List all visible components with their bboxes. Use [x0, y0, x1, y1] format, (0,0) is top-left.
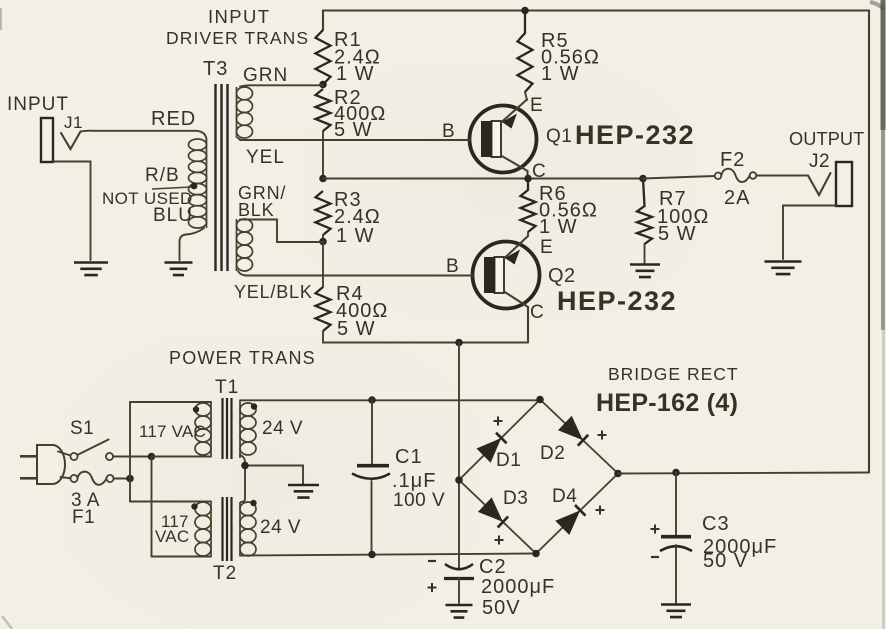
- transistor Q2 emitter lead: [504, 236, 528, 265]
- resistor R4: [316, 287, 331, 331]
- wire GRN/BLK to R3/R4 node: [240, 220, 323, 243]
- svg-text:DRIVER TRANS: DRIVER TRANS: [166, 28, 309, 48]
- node bias rail / bridge feed: [455, 339, 463, 347]
- wire collector rail: [323, 178, 643, 180]
- wire F1 to primary bus: [114, 478, 131, 480]
- wire GRN to R1/R2 node: [240, 85, 323, 86]
- label R6: [539, 183, 598, 238]
- fuse F1: [70, 472, 113, 485]
- wire fuse to J2: [756, 175, 807, 177]
- wire primary S1 bus: [151, 457, 153, 557]
- svg-text:YEL/BLK: YEL/BLK: [234, 282, 313, 302]
- label 24V T1: [262, 418, 303, 439]
- svg-text:YEL: YEL: [246, 147, 285, 168]
- label Q1: [546, 120, 695, 150]
- label 117VAC T1: [139, 422, 206, 441]
- polarity dot T1 primary: [193, 406, 199, 412]
- resistor R3: [316, 191, 331, 235]
- svg-text:24 V: 24 V: [262, 418, 303, 439]
- label 117VAC T2: [155, 512, 189, 546]
- node bridge left: [455, 476, 463, 484]
- wire primary F1 bus: [129, 402, 131, 502]
- svg-text:VAC: VAC: [155, 527, 189, 546]
- svg-text:F1: F1: [72, 507, 95, 528]
- wire T2 primary bottom: [152, 556, 212, 558]
- node center tap: [241, 462, 249, 470]
- label POWER TRANS: [169, 348, 316, 368]
- ground BLU: [165, 263, 193, 276]
- wire R3 bottom: [322, 235, 324, 242]
- resistor R1: [316, 30, 331, 85]
- label NOT USED: [102, 189, 193, 208]
- wire RED lead: [81, 131, 207, 140]
- capacitor C1: [352, 400, 390, 554]
- svg-text:GRN: GRN: [243, 65, 288, 86]
- label R/B: [145, 165, 180, 186]
- label GRN: [243, 65, 288, 86]
- resistor R6: [521, 179, 536, 233]
- label S1: [70, 418, 94, 439]
- svg-text:Q2: Q2: [548, 265, 576, 287]
- wire secondary center tap: [240, 455, 303, 502]
- label Q2 pins: [446, 237, 553, 323]
- transistor Q1 body: [470, 106, 537, 173]
- node R1/R2/GRN: [319, 81, 327, 89]
- transformer T3 secondary lower winding: [237, 219, 253, 271]
- svg-text:D3: D3: [503, 488, 528, 509]
- wire YEL/BLK to Q2 base: [238, 271, 246, 276]
- svg-text:C3: C3: [702, 513, 730, 535]
- label D3: [503, 488, 528, 509]
- label 24V T2: [260, 517, 301, 538]
- svg-text:.1μF: .1μF: [392, 470, 436, 492]
- transistor Q2 base bars: [484, 257, 504, 293]
- polarity dot T1 secondary: [251, 403, 257, 409]
- svg-text:RED: RED: [151, 108, 196, 130]
- svg-text:E: E: [530, 95, 543, 116]
- polarity + D2: [598, 431, 607, 440]
- wire R2 to collector rail: [322, 131, 324, 179]
- bridge diamond: [459, 400, 618, 554]
- node C3 top: [672, 469, 680, 477]
- jack J2 tip contact: [808, 173, 831, 195]
- label R3: [334, 189, 381, 247]
- node bridge right: [614, 470, 622, 478]
- label YEL/BLK: [234, 282, 313, 302]
- svg-text:T2: T2: [213, 563, 237, 584]
- label J2: [809, 151, 830, 172]
- resistor R5: [518, 11, 533, 93]
- transformer T3 primary winding: [189, 139, 207, 228]
- wire secondary bottom rail: [240, 554, 536, 556]
- svg-text:HEP-162 (4): HEP-162 (4): [596, 389, 738, 417]
- label R5: [541, 30, 600, 85]
- svg-text:HEP-232: HEP-232: [575, 120, 695, 150]
- transformer T2 secondary winding: [240, 502, 256, 556]
- svg-text:E: E: [540, 237, 553, 258]
- wire T2 primary top: [130, 501, 211, 503]
- ground C2: [446, 605, 473, 618]
- node bridge bottom: [532, 550, 540, 558]
- capacitor C3: [660, 473, 692, 604]
- label J1: [64, 113, 83, 132]
- node top rail / R5: [521, 7, 529, 15]
- label T1: [215, 377, 239, 398]
- label RED: [151, 108, 196, 130]
- resistor R7: [637, 179, 652, 245]
- label OUTPUT: [789, 129, 864, 149]
- label F1 3A: [71, 490, 100, 528]
- node Q1 collector: [524, 175, 532, 183]
- fuse F2: [715, 169, 757, 182]
- label R4: [336, 283, 388, 340]
- diode D2: [558, 416, 588, 446]
- transformer T3 secondary upper winding: [237, 87, 253, 138]
- jack J2 body: [836, 162, 852, 206]
- transformer T1 core: [223, 398, 232, 459]
- svg-text:1 W: 1 W: [539, 216, 578, 238]
- label F2: [720, 149, 750, 209]
- label BLU: [153, 205, 193, 226]
- label T3: [203, 58, 228, 80]
- label YEL: [246, 147, 285, 168]
- svg-text:2A: 2A: [724, 187, 750, 209]
- label C3: [702, 513, 777, 572]
- svg-text:B: B: [442, 121, 455, 142]
- svg-text:BLK: BLK: [238, 200, 274, 220]
- svg-text:C2: C2: [479, 556, 507, 578]
- label BRIDGE RECT: [596, 364, 739, 417]
- label D1: [496, 450, 521, 471]
- wire Q2 base lead: [245, 275, 473, 277]
- plug P1: [20, 445, 71, 484]
- svg-text:J1: J1: [64, 113, 83, 132]
- svg-text:1 W: 1 W: [336, 63, 375, 85]
- label R2: [334, 87, 386, 141]
- node bridge top: [536, 396, 544, 404]
- label T2: [213, 563, 237, 584]
- label C2: [479, 556, 555, 619]
- node F1 primary junction: [126, 475, 134, 483]
- svg-text:D4: D4: [552, 486, 577, 507]
- jack J1 tip contact: [61, 132, 81, 150]
- node output junction: [639, 175, 647, 183]
- transistor Q1 emitter lead: [501, 100, 527, 129]
- wire bridge output rail: [618, 473, 869, 474]
- svg-text:HEP-232: HEP-232: [557, 286, 677, 316]
- wire Q1 base lead: [240, 139, 470, 141]
- wire S1 to T1 primary: [113, 456, 152, 458]
- wire BLU to ground: [180, 228, 205, 260]
- wire T1 primary bottom: [152, 456, 212, 458]
- diode D4: [555, 505, 585, 535]
- svg-text:B: B: [446, 256, 459, 277]
- wire J2 sleeve to ground: [783, 206, 836, 260]
- svg-text:BLU: BLU: [153, 205, 193, 226]
- ground C3: [661, 605, 691, 618]
- node collector rail left: [319, 175, 327, 183]
- switch S1: [70, 440, 113, 461]
- svg-text:2000μF: 2000μF: [481, 576, 555, 598]
- label R7: [657, 188, 709, 245]
- node S1 primary junction: [148, 453, 156, 461]
- wire top supply rail: [323, 11, 869, 473]
- svg-text:117 VAC: 117 VAC: [139, 422, 206, 441]
- svg-text:5 W: 5 W: [334, 119, 373, 141]
- wire R6 to Q2 emitter: [527, 232, 529, 236]
- wire R5 to Q1 emitter: [525, 92, 527, 100]
- svg-text:INPUT: INPUT: [208, 6, 271, 27]
- node R/B center tap: [191, 183, 198, 190]
- transistor Q1 base bars: [481, 121, 501, 157]
- label D4: [552, 486, 577, 507]
- label D2: [540, 443, 565, 464]
- wire R/B leader: [152, 187, 191, 189]
- jack J1 body: [41, 118, 53, 162]
- wire T1 primary top: [130, 401, 211, 403]
- polarity + D4: [596, 506, 605, 515]
- transformer T3 core: [216, 84, 228, 271]
- node R3/R4/GRN-BLK: [319, 238, 327, 246]
- capacitor C2: [444, 564, 474, 603]
- wire YEL to Q1 base: [238, 138, 250, 140]
- label C1: [392, 446, 445, 511]
- wire output node to fuse: [643, 176, 715, 179]
- ground J2: [765, 262, 802, 275]
- wire negative bias rail: [323, 331, 528, 343]
- svg-text:J2: J2: [809, 151, 830, 172]
- svg-text:50 V: 50 V: [703, 550, 748, 572]
- label Q2: [548, 265, 677, 316]
- wire secondary top rail: [240, 399, 540, 401]
- svg-text:1 W: 1 W: [541, 63, 580, 85]
- ground R7: [630, 265, 660, 278]
- label INPUT: [7, 94, 69, 115]
- label Q1 pins: [442, 95, 546, 182]
- svg-text:BRIDGE RECT: BRIDGE RECT: [608, 364, 739, 384]
- transformer T1 secondary winding: [240, 401, 256, 459]
- svg-text:D2: D2: [540, 443, 565, 464]
- svg-text:50V: 50V: [482, 597, 521, 619]
- transformer T1 primary winding: [195, 402, 211, 457]
- svg-text:24 V: 24 V: [260, 517, 301, 538]
- wire J1 sleeve to ground: [53, 162, 91, 261]
- transformer T2 core: [223, 497, 232, 561]
- label R1: [334, 29, 381, 85]
- label heading INPUT DRIVER TRANS: [166, 6, 309, 48]
- polarity + D1: [494, 417, 503, 426]
- transistor Q1 collector lead: [501, 156, 528, 179]
- svg-text:1 W: 1 W: [336, 225, 375, 247]
- svg-text:T1: T1: [215, 377, 239, 398]
- polarity dot T2 primary: [191, 503, 197, 509]
- svg-text:C: C: [530, 302, 544, 323]
- svg-text:R/B: R/B: [145, 165, 180, 186]
- ground J1: [74, 263, 108, 276]
- svg-text:5 W: 5 W: [658, 223, 697, 245]
- svg-text:T3: T3: [203, 58, 228, 80]
- svg-text:INPUT: INPUT: [7, 94, 69, 115]
- svg-text:S1: S1: [70, 418, 94, 439]
- svg-text:Q1: Q1: [546, 126, 572, 147]
- wire R4 top link: [322, 242, 324, 288]
- diode D3: [478, 497, 508, 527]
- ground center tap: [288, 485, 319, 498]
- svg-text:100 V: 100 V: [393, 490, 445, 511]
- resistor R2: [316, 89, 331, 131]
- svg-text:OUTPUT: OUTPUT: [789, 129, 864, 149]
- transistor Q2 collector lead: [504, 292, 528, 343]
- svg-text:5 W: 5 W: [337, 318, 376, 340]
- node C1 top: [368, 396, 376, 404]
- polarity C3: [651, 525, 660, 558]
- svg-text:D1: D1: [496, 450, 521, 471]
- polarity + D3: [495, 536, 504, 545]
- transistor Q2 body: [473, 242, 540, 309]
- svg-text:F2: F2: [720, 149, 745, 171]
- wire bias to bridge left corner: [458, 343, 460, 569]
- transformer T2 primary winding: [195, 502, 211, 557]
- polarity dot T2 secondary: [250, 500, 256, 506]
- svg-text:POWER TRANS: POWER TRANS: [169, 348, 316, 368]
- diode D1: [477, 433, 507, 463]
- wire R7 to ground: [644, 244, 646, 263]
- svg-text:C1: C1: [395, 446, 423, 468]
- label GRN/BLK: [238, 183, 286, 220]
- polarity C2: [428, 561, 437, 592]
- node C1 bottom: [368, 551, 376, 559]
